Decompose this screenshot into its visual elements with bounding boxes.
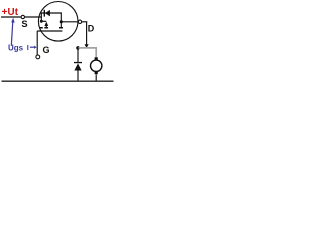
svg-text:Ugs: Ugs (8, 43, 24, 52)
svg-text:G: G (43, 45, 50, 55)
svg-text:D: D (88, 24, 95, 34)
svg-text:I: I (27, 43, 29, 52)
svg-text:+Ut: +Ut (2, 7, 19, 18)
svg-text:S: S (21, 19, 27, 29)
